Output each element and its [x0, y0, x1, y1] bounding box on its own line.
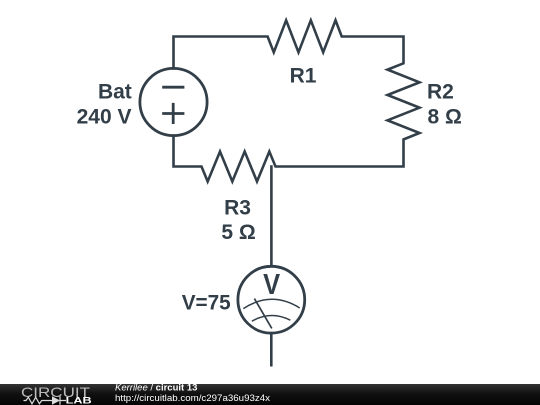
svg-text:V=75: V=75	[182, 292, 231, 315]
wire top + resistor R1 + right side + resistor R2 + bottom + resistor R3	[174, 20, 420, 181]
voltmeter upper arc	[243, 299, 299, 308]
svg-text:5 Ω: 5 Ω	[221, 221, 255, 244]
battery plus sign	[162, 103, 184, 124]
voltmeter needle	[254, 299, 271, 329]
voltmeter M1 circle	[238, 266, 305, 333]
svg-text:LAB: LAB	[66, 396, 92, 405]
wire: main loop (top wire, R1 zigzag, right wire, R2 zigzag, bottom wire, R3 zigzag)	[174, 20, 420, 365]
svg-text:R1: R1	[290, 65, 317, 88]
svg-text:http://circuitlab.com/c297a36u: http://circuitlab.com/c297a36u93z4x	[115, 393, 270, 404]
voltmeter lower arc	[252, 316, 290, 322]
svg-text:8 Ω: 8 Ω	[428, 105, 462, 128]
svg-text:V: V	[263, 269, 281, 301]
svg-text:R2: R2	[427, 80, 454, 103]
battery V1 (Bat) circle	[140, 68, 207, 135]
wire: junction to voltmeter	[270, 167, 273, 267]
svg-text:Bat: Bat	[98, 81, 132, 104]
battery minus sign	[162, 86, 184, 89]
CircuitLab logo: resistor zigzag + diode symbol	[24, 396, 67, 404]
svg-text:240 V: 240 V	[77, 105, 132, 128]
svg-text:R3: R3	[224, 196, 251, 219]
wire: stub below voltmeter	[270, 333, 273, 365]
footer bar	[0, 384, 540, 405]
